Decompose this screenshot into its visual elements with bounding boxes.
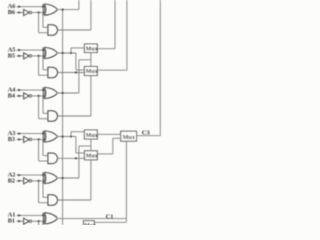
svg-text:B4: B4 (8, 92, 16, 99)
svg-text:Mux: Mux (86, 47, 98, 53)
svg-text:B1: B1 (8, 218, 15, 225)
svg-text:Mux: Mux (123, 134, 136, 141)
svg-text:Mux: Mux (86, 69, 98, 75)
svg-text:B2: B2 (8, 177, 15, 184)
svg-text:B6: B6 (8, 9, 15, 16)
svg-text:Mux: Mux (86, 154, 98, 160)
svg-text:B5: B5 (8, 52, 15, 59)
svg-text:B3: B3 (8, 136, 15, 143)
svg-text:Mux: Mux (84, 223, 96, 225)
svg-text:C3: C3 (142, 129, 151, 136)
svg-text:C1: C1 (106, 213, 114, 220)
svg-text:Mux: Mux (86, 133, 98, 139)
